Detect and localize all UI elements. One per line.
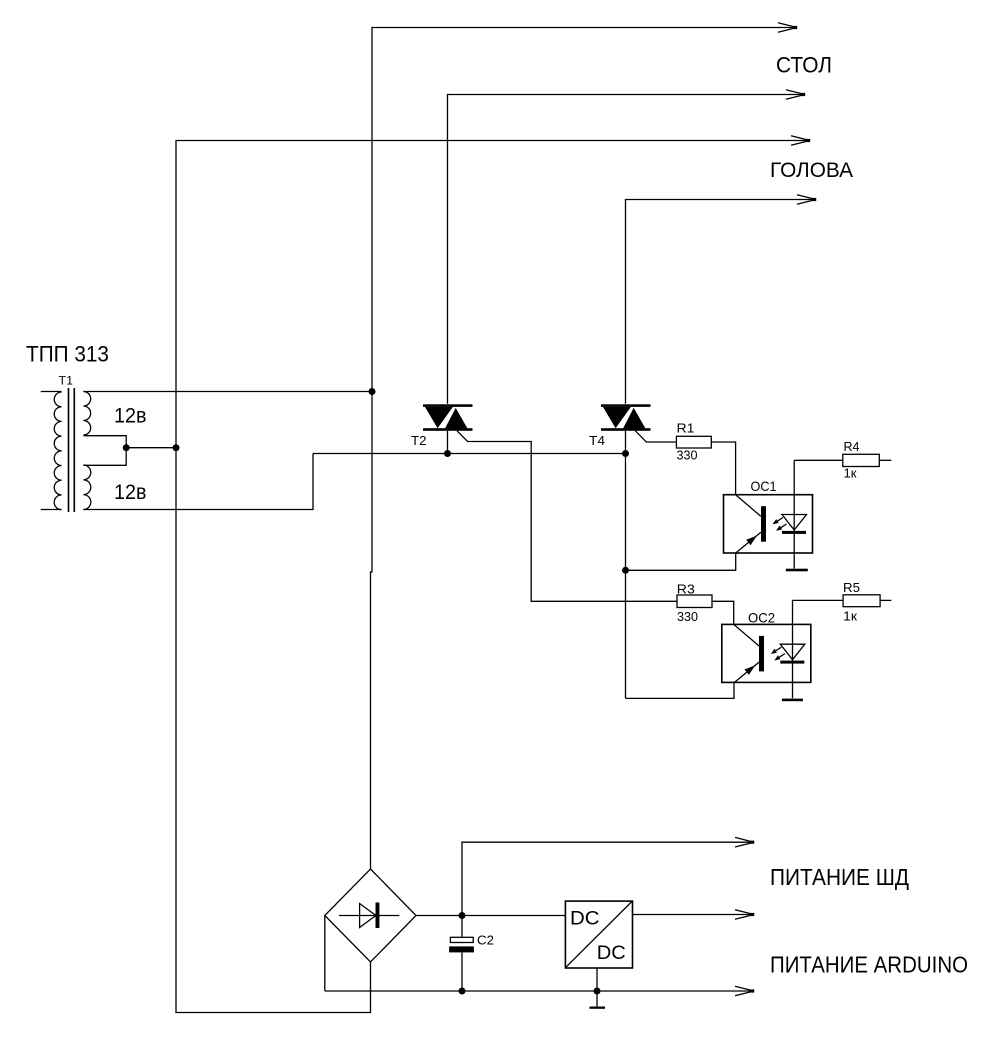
svg-text:T2: T2 (411, 433, 427, 448)
svg-text:12в: 12в (114, 405, 147, 428)
svg-text:R5: R5 (843, 580, 860, 595)
node dot DC/DC ground (594, 988, 601, 995)
svg-text:R3: R3 (677, 582, 695, 597)
ground OC1 (786, 569, 808, 572)
svg-text:СТОЛ: СТОЛ (776, 53, 832, 78)
wire center tap to vertical (126, 447, 176, 449)
OC1 LED bar (761, 506, 766, 542)
bridge diode triangle (360, 904, 376, 928)
wire bottom rail (325, 990, 751, 992)
arrow output 6 (735, 910, 754, 920)
wire OC2 return (626, 683, 735, 699)
transformer T1 primary winding (41, 392, 62, 510)
wire secondary top to node (83, 391, 372, 393)
svg-text:ПИТАНИЕ ШД: ПИТАНИЕ ШД (770, 864, 909, 890)
wire secondary bottom (83, 454, 313, 510)
svg-text:1к: 1к (843, 608, 857, 623)
node dot T4 rail (622, 450, 629, 457)
wire R5 left (793, 599, 844, 601)
arrow output 1 (778, 23, 797, 33)
arrow output 2 (786, 90, 805, 100)
svg-text:T1: T1 (59, 374, 74, 388)
arrow output 7 (735, 986, 754, 996)
arrow output 3 (791, 136, 810, 146)
wire T2 gate to R3 (457, 431, 677, 602)
arrow output 5 (735, 837, 754, 847)
OC1 light arrow lower (778, 524, 787, 530)
wire R4 left (794, 459, 843, 461)
wire R3 to OC2 input (712, 601, 734, 624)
OC2 LED anode diagonal (734, 624, 759, 646)
bridge diode line (339, 915, 399, 917)
svg-text:OC2: OC2 (748, 610, 775, 626)
OC1 LED cathode diagonal (736, 532, 761, 553)
svg-text:330: 330 (677, 609, 698, 624)
svg-text:12в: 12в (114, 481, 147, 504)
wire R1 to OC1 input (711, 442, 735, 495)
arrow output 4 (797, 195, 816, 205)
node dot center tap (123, 444, 130, 451)
wire net 1 to STOL arrow (vertical x=372 + horizontal y=27.5) (371, 28, 795, 870)
svg-text:DC: DC (570, 907, 600, 929)
DC/DC diagonal (566, 902, 632, 968)
svg-text:ГОЛОВА: ГОЛОВА (770, 159, 853, 182)
wire net 4 (vertical x=625.5 + horizontal y=199.5) (626, 200, 814, 404)
wire T4 gate to R1 (635, 431, 676, 442)
capacitor C2 wire top (461, 916, 463, 938)
OC2 LED arrowhead (745, 665, 756, 675)
OC1 detector bar (782, 531, 806, 534)
OC1 detector triangle (782, 515, 807, 531)
resistor R1 (676, 436, 711, 448)
OC1 detector wire vertical (793, 460, 795, 568)
node dot C2 bottom (459, 988, 466, 995)
svg-text:ПИТАНИЕ ARDUINO: ПИТАНИЕ ARDUINO (770, 952, 968, 978)
OC2 light arrow upper (772, 647, 781, 653)
ground DC/DC (590, 1007, 606, 1009)
transformer T1 secondary winding upper 12v (83, 392, 90, 436)
resistor R3 (677, 595, 712, 608)
OC2 light arrow lower (776, 654, 785, 660)
optocoupler OC2 box (722, 624, 811, 682)
resistor R4 (843, 454, 880, 466)
transformer T1 secondary winding lower 12v (83, 465, 90, 509)
bridge diode bar (376, 903, 380, 929)
wire center tap (83, 436, 126, 466)
svg-text:R1: R1 (677, 421, 695, 436)
OC1 LED arrowhead (746, 536, 757, 546)
node dot OC1 return (622, 567, 629, 574)
svg-text:R4: R4 (844, 439, 860, 454)
wire up to PITANIE ShD (462, 842, 751, 915)
wire R4 right (879, 459, 891, 461)
capacitor C2 wire bottom (461, 952, 463, 991)
wire DC/DC ground pin (596, 968, 598, 1007)
wire bridge left vertex down (324, 916, 326, 992)
triac T2 (423, 404, 473, 431)
OC1 LED anode diagonal (736, 495, 761, 517)
capacitor C2 bottom plate (449, 946, 474, 952)
OC2 LED cathode diagonal (734, 662, 759, 683)
svg-text:DC: DC (597, 942, 626, 964)
wire net 3 (vertical x=176 full height + horizontal y=140.5 + bottom run) (176, 141, 807, 1013)
node dot bridge output (459, 912, 466, 919)
svg-text:ТПП 313: ТПП 313 (26, 342, 109, 367)
triac T4 (601, 404, 651, 431)
svg-text:1к: 1к (844, 465, 857, 480)
node dot top wire x372 (369, 388, 376, 395)
OC1 light arrow upper (774, 518, 783, 524)
DC/DC converter U1 box (565, 901, 632, 968)
OC2 detector triangle (780, 644, 805, 660)
svg-text:C2: C2 (477, 933, 494, 948)
wire rail y=453.5 (313, 453, 626, 455)
svg-text:OC1: OC1 (751, 478, 777, 494)
optocoupler OC1 box (724, 495, 813, 553)
OC2 LED bar (759, 636, 764, 672)
svg-text:330: 330 (677, 447, 698, 462)
wire T4 anode down chain (625, 431, 627, 699)
wire bridge right to DC/DC (416, 915, 565, 917)
svg-text:T4: T4 (589, 433, 605, 448)
transformer T1 core (68, 388, 70, 512)
wire R5 right (880, 599, 891, 601)
capacitor C2 top plate (450, 937, 473, 942)
wire net 2 (vertical x=447.5 + horizontal y=94.5) (448, 95, 803, 404)
OC2 detector bar (780, 661, 804, 664)
OC2 detector wire vertical (792, 600, 794, 698)
bridge rectifier diamond (325, 869, 416, 962)
wire T2 anode to rail (447, 431, 449, 454)
wire DC/DC output (633, 914, 752, 916)
wire OC1 return (626, 553, 736, 571)
ground OC2 (782, 699, 803, 702)
resistor R5 (843, 595, 880, 607)
node dot T2 rail (444, 450, 451, 457)
node dot center tap at x176 (173, 444, 180, 451)
